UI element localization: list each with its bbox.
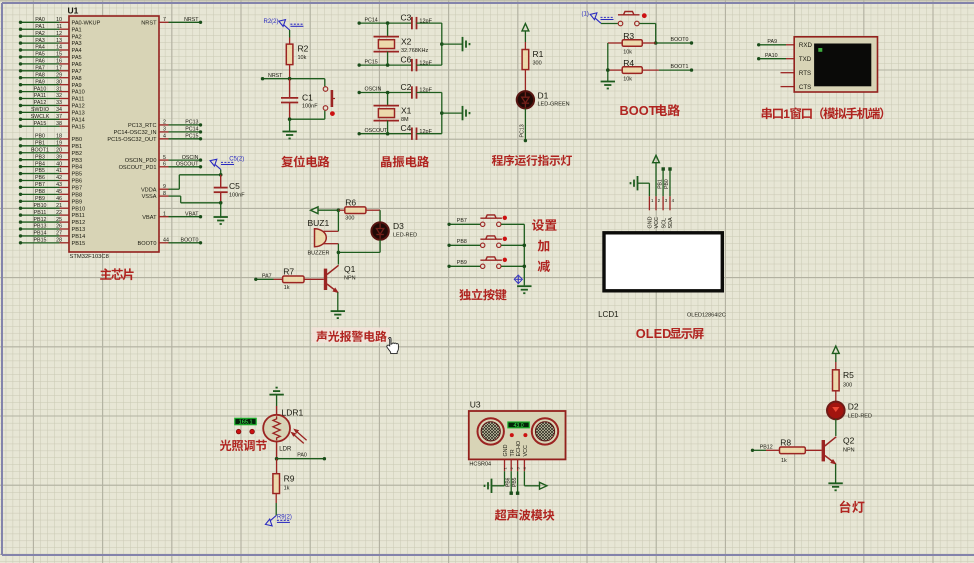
ultrasonic module U3 HCSR04 bbox=[469, 400, 566, 472]
svg-text:12: 12 bbox=[56, 31, 62, 37]
U1 pin OSCIN_PD0 (5) / net OSCIN wire bbox=[125, 155, 202, 164]
svg-text:PB5: PB5 bbox=[72, 172, 83, 178]
svg-text:PB14: PB14 bbox=[72, 234, 86, 240]
ground (rotated left) for U3 GND bbox=[485, 471, 505, 493]
svg-text:SWCLK: SWCLK bbox=[31, 114, 50, 120]
svg-text:VBAT: VBAT bbox=[185, 211, 199, 217]
svg-text:34: 34 bbox=[56, 107, 62, 113]
svg-text:C1: C1 bbox=[302, 93, 313, 103]
U1 pin PA7 (17) / net PA7 wire bbox=[19, 66, 82, 75]
svg-text:6: 6 bbox=[163, 162, 166, 168]
svg-text:PB1: PB1 bbox=[72, 144, 83, 150]
svg-text:32: 32 bbox=[56, 93, 62, 99]
wire D3 to collector node bbox=[337, 240, 381, 255]
svg-text:NPN: NPN bbox=[344, 276, 356, 282]
svg-text:CTS: CTS bbox=[799, 84, 811, 91]
push button PB9 key bbox=[480, 257, 524, 269]
U1 pin BOOT0 (44) / net BOOT0 wire bbox=[138, 238, 203, 247]
resistor R1 300 bbox=[522, 42, 544, 91]
svg-text:PB11: PB11 bbox=[72, 213, 85, 219]
svg-text:PC15-OSC32_OUT: PC15-OSC32_OUT bbox=[107, 137, 157, 143]
net PA9 wire bbox=[757, 39, 786, 47]
svg-text:2: 2 bbox=[163, 120, 166, 126]
U1 pin PA3 (13) / net PA3 wire bbox=[19, 38, 82, 47]
svg-text:10k: 10k bbox=[623, 77, 632, 83]
virtual terminal (serial window) bbox=[781, 37, 878, 92]
svg-text:U3: U3 bbox=[470, 400, 481, 410]
svg-text:100nF: 100nF bbox=[302, 104, 318, 110]
svg-text:X1: X1 bbox=[401, 106, 412, 116]
svg-text:LED-RED: LED-RED bbox=[393, 232, 417, 238]
blue marker diamond bbox=[514, 275, 522, 284]
svg-text:PB3: PB3 bbox=[72, 158, 83, 164]
LDR adjust buttons (red) bbox=[236, 429, 254, 434]
svg-text:42: 42 bbox=[56, 175, 62, 181]
label 晶振电路 (crystal circuit) bbox=[381, 156, 429, 168]
svg-text:Q2: Q2 bbox=[843, 436, 855, 446]
svg-text:PA1: PA1 bbox=[72, 27, 82, 33]
U1 pin PB7 (43) / net PB7 wire bbox=[19, 182, 82, 191]
svg-text:R4: R4 bbox=[623, 58, 634, 68]
net NRST wire + junction bbox=[261, 73, 325, 80]
svg-text:NRST: NRST bbox=[268, 73, 283, 79]
power symbol above R1 bbox=[522, 24, 529, 43]
svg-text:PA3: PA3 bbox=[72, 41, 82, 47]
svg-text:Q1: Q1 bbox=[344, 264, 356, 274]
svg-text:LCD1: LCD1 bbox=[598, 310, 619, 319]
node C5 bottom junction bbox=[219, 201, 223, 205]
svg-text:8: 8 bbox=[163, 191, 166, 197]
svg-text:PB10: PB10 bbox=[34, 203, 47, 209]
U1 pin VBAT (1) / net VBAT wire bbox=[142, 211, 202, 220]
svg-text:PA12: PA12 bbox=[72, 104, 85, 110]
svg-text:PA0-WKUP: PA0-WKUP bbox=[72, 20, 101, 26]
U1 pin PB10 (21) / net PB10 wire bbox=[19, 203, 85, 212]
svg-text:PB12: PB12 bbox=[34, 217, 47, 223]
label 设置 (set) bbox=[532, 219, 557, 231]
svg-text:18: 18 bbox=[56, 134, 62, 140]
svg-text:20: 20 bbox=[56, 148, 62, 154]
svg-text:VCC: VCC bbox=[654, 217, 660, 228]
svg-text:C5(2): C5(2) bbox=[229, 157, 244, 163]
ground reset circuit bbox=[282, 119, 296, 138]
svg-text:PB5: PB5 bbox=[35, 168, 45, 174]
svg-text:PA5: PA5 bbox=[72, 55, 82, 61]
resistor R4 10k bbox=[608, 58, 659, 83]
wire Q2 emitter to ground bbox=[835, 464, 837, 484]
svg-text:BOOT0: BOOT0 bbox=[181, 238, 199, 244]
U1 pin PA10 (31) / net PA10 wire bbox=[19, 86, 85, 95]
svg-text:3: 3 bbox=[163, 127, 166, 133]
transistor Q2 NPN bbox=[822, 419, 855, 464]
svg-text:RXD: RXD bbox=[799, 42, 813, 49]
resistor R3 10k bbox=[608, 31, 656, 56]
svg-text:OSCIN: OSCIN bbox=[365, 87, 382, 93]
ground (rotated left) for OLED GND pin bbox=[631, 176, 650, 196]
net PA0 wire + junction bbox=[275, 453, 326, 461]
svg-text:PB4: PB4 bbox=[35, 161, 45, 167]
label 独立按键 (independent keys) bbox=[459, 289, 506, 301]
buzzer BUZ1 bbox=[308, 218, 339, 257]
svg-text:PA7: PA7 bbox=[72, 69, 82, 75]
LDR LDR1 bbox=[263, 406, 306, 459]
svg-text:1k: 1k bbox=[284, 285, 290, 291]
svg-text:14: 14 bbox=[56, 45, 62, 51]
resistor R9 1k bbox=[273, 459, 295, 503]
resistor R2 10k bbox=[286, 38, 308, 79]
U1 pin PA11 (32) / net PA11 wire bbox=[19, 93, 85, 102]
net PB9 wire bbox=[447, 260, 480, 268]
voltage probe R2(2) bbox=[264, 19, 304, 30]
voltage probe (1) bbox=[582, 12, 614, 24]
svg-text:4: 4 bbox=[163, 134, 166, 140]
net PA10 wire bbox=[757, 53, 786, 61]
svg-text:1k: 1k bbox=[284, 486, 290, 492]
right vertical wire + junction (X1 caps common) bbox=[440, 93, 463, 134]
U1 pin PA6 (16) / net PA6 wire bbox=[19, 59, 82, 68]
svg-text:R2(2): R2(2) bbox=[264, 19, 279, 25]
svg-text:7: 7 bbox=[163, 17, 166, 23]
svg-text:PC15: PC15 bbox=[365, 59, 378, 65]
U1 pin PB4 (40) / net PB4 wire bbox=[19, 161, 82, 170]
net PB1 wire to SCL bbox=[657, 167, 665, 196]
power symbol (left) for alarm bbox=[311, 207, 341, 214]
U1 pin PB0 (18) / net PB0 wire bbox=[19, 134, 82, 143]
svg-text:C3: C3 bbox=[401, 13, 412, 23]
svg-text:R6: R6 bbox=[345, 198, 356, 208]
U1 pin OSCOUT_PD1 (6) / net OSCOUT wire bbox=[119, 162, 203, 171]
svg-text:PB10: PB10 bbox=[72, 206, 86, 212]
svg-text:NRST: NRST bbox=[184, 17, 199, 23]
right vertical wire + junction (X2 caps common) bbox=[440, 23, 463, 65]
svg-text:PC13_RTC: PC13_RTC bbox=[128, 123, 157, 129]
svg-text:1: 1 bbox=[163, 211, 166, 217]
U1 pin PA0-WKUP (10) / net PA0 wire bbox=[19, 17, 101, 26]
svg-text:33: 33 bbox=[56, 100, 62, 106]
svg-text:OSCOUT: OSCOUT bbox=[365, 128, 388, 134]
svg-text:NRST: NRST bbox=[141, 20, 157, 26]
net PB0 wire to SDA bbox=[664, 167, 672, 196]
svg-text:PB9: PB9 bbox=[457, 260, 467, 266]
svg-text:PB15: PB15 bbox=[72, 241, 86, 247]
resistor R6 300 bbox=[338, 198, 380, 222]
U1 pin PA13 (34) / net SWDIO wire bbox=[19, 107, 85, 116]
svg-text:43: 43 bbox=[56, 182, 62, 188]
svg-text:PC13: PC13 bbox=[185, 120, 198, 126]
svg-text:SWDIO: SWDIO bbox=[31, 107, 49, 113]
svg-text:21: 21 bbox=[56, 203, 62, 209]
svg-text:PB8: PB8 bbox=[72, 192, 83, 198]
power symbol above R5 bbox=[832, 346, 839, 362]
U1 pin NRST (7) / net NRST wire bbox=[141, 17, 202, 26]
MCU U1 STM32F103C8 bbox=[68, 6, 160, 261]
svg-text:OSCOUT: OSCOUT bbox=[176, 162, 199, 168]
svg-text:VCC: VCC bbox=[523, 445, 529, 456]
svg-text:PB14: PB14 bbox=[34, 231, 47, 237]
svg-text:OLED: OLED bbox=[636, 326, 672, 341]
OLED LCD1 OLED12864I2C bbox=[598, 196, 726, 319]
crystal X1 8M bbox=[374, 93, 412, 134]
label 主芯片 (main chip) bbox=[100, 268, 133, 280]
net PC14 wire row bbox=[358, 17, 412, 25]
svg-text:PA9: PA9 bbox=[767, 39, 777, 45]
svg-text:PB7: PB7 bbox=[35, 182, 45, 188]
svg-text:27: 27 bbox=[56, 231, 62, 237]
svg-text:C6: C6 bbox=[401, 55, 412, 65]
svg-text:16: 16 bbox=[56, 59, 62, 65]
resistor R5 300 bbox=[833, 362, 855, 402]
svg-text:44: 44 bbox=[163, 238, 169, 244]
svg-text:GND: GND bbox=[648, 216, 654, 228]
svg-text:PA5: PA5 bbox=[35, 52, 45, 58]
svg-text:PB3: PB3 bbox=[35, 154, 45, 160]
U1 pin PB8 (45) / net PB8 wire bbox=[19, 189, 82, 198]
transistor Q1 NPN bbox=[324, 252, 356, 292]
keys common vertical wire + junctions bbox=[523, 224, 527, 285]
svg-text:300: 300 bbox=[843, 383, 852, 389]
LDR adjuster display 165.1 bbox=[235, 418, 256, 425]
svg-text:17: 17 bbox=[56, 66, 62, 72]
svg-text:46: 46 bbox=[56, 196, 62, 202]
label 串口1窗口（模拟手机端） bbox=[762, 107, 884, 121]
svg-text:R5: R5 bbox=[843, 370, 854, 380]
U1 pin PB12 (25) / net PB12 wire bbox=[19, 217, 85, 226]
svg-text:C2: C2 bbox=[401, 82, 412, 92]
U1 pin PB15 (28) / net PB15 wire bbox=[19, 238, 85, 247]
net PB8 wire bbox=[447, 239, 480, 247]
svg-text:13: 13 bbox=[56, 38, 62, 44]
svg-text:X2: X2 bbox=[401, 37, 412, 47]
svg-text:PB0: PB0 bbox=[72, 137, 83, 143]
svg-text:PB12: PB12 bbox=[760, 444, 773, 450]
svg-text:31: 31 bbox=[56, 86, 62, 92]
net OSCIN wire row bbox=[358, 87, 412, 95]
svg-text:PC14: PC14 bbox=[185, 127, 198, 133]
label 减 (minus) bbox=[538, 260, 550, 272]
label 台灯 (desk lamp) bbox=[840, 501, 865, 513]
svg-text:41: 41 bbox=[56, 168, 62, 174]
net PA7 wire bbox=[254, 273, 273, 281]
svg-text:C5: C5 bbox=[229, 181, 240, 191]
U1 pin PB13 (26) / net PB13 wire bbox=[19, 224, 85, 233]
capacitor C1 100nF bbox=[281, 79, 318, 120]
label 声光报警电路 (sound-light alarm) bbox=[312, 327, 390, 342]
svg-text:19: 19 bbox=[56, 141, 62, 147]
svg-text:PA6: PA6 bbox=[35, 59, 45, 65]
svg-text:PA10: PA10 bbox=[34, 86, 47, 92]
capacitor C2 12pF bbox=[401, 82, 442, 99]
svg-text:PA12: PA12 bbox=[34, 100, 47, 106]
svg-text:BOOT1: BOOT1 bbox=[31, 148, 49, 154]
svg-text:R8: R8 bbox=[780, 437, 791, 447]
svg-text:43.0: 43.0 bbox=[514, 423, 524, 429]
svg-text:LED-GREEN: LED-GREEN bbox=[538, 101, 570, 107]
svg-text:OLED12864I2C: OLED12864I2C bbox=[687, 313, 726, 319]
U1 pin PA1 (11) / net PA1 wire bbox=[19, 24, 82, 33]
svg-text:U1: U1 bbox=[68, 6, 79, 16]
ground (rotated right) for X2 bbox=[463, 37, 470, 51]
svg-text:PA1: PA1 bbox=[35, 24, 45, 30]
capacitor C5 100nF bbox=[214, 175, 246, 203]
svg-text:R7: R7 bbox=[283, 266, 294, 276]
label 光照调节 (light adjust) bbox=[220, 440, 267, 452]
svg-text:BUZZER: BUZZER bbox=[308, 251, 330, 257]
ground below C5 bbox=[214, 203, 228, 224]
ground BOOT circuit bbox=[601, 82, 615, 89]
svg-text:26: 26 bbox=[56, 224, 62, 230]
svg-text:R3: R3 bbox=[623, 31, 634, 41]
wire button to BOOT0 node bbox=[654, 24, 658, 45]
svg-text:PA11: PA11 bbox=[72, 97, 85, 103]
svg-text:300: 300 bbox=[345, 216, 354, 222]
svg-text:D1: D1 bbox=[538, 91, 549, 101]
svg-text:PB11: PB11 bbox=[34, 210, 47, 216]
wire power node to buzzer top bbox=[337, 210, 339, 231]
svg-text:R9(2): R9(2) bbox=[277, 514, 292, 520]
reset button (vertical push button) bbox=[323, 79, 335, 120]
svg-text:ECHO: ECHO bbox=[516, 441, 522, 457]
mouse hand cursor bbox=[387, 337, 399, 353]
U1 pin PB3 (39) / net PB3 wire bbox=[19, 154, 82, 163]
svg-text:PA2: PA2 bbox=[72, 34, 82, 40]
label OLED显示屏 bbox=[636, 326, 704, 341]
net PB12 wire bbox=[751, 444, 773, 452]
svg-text:PB1: PB1 bbox=[657, 179, 663, 189]
U1 pin PC14-OSC32_IN (3) / net PC14 wire bbox=[114, 127, 203, 136]
push button PB8 key bbox=[480, 236, 524, 248]
svg-text:SCL: SCL bbox=[661, 218, 667, 229]
svg-text:TR: TR bbox=[510, 449, 516, 456]
resistor R8 1k bbox=[766, 437, 822, 464]
svg-text:29: 29 bbox=[56, 72, 62, 78]
svg-text:PA9: PA9 bbox=[35, 79, 45, 85]
net PB7 wire bbox=[447, 218, 480, 226]
svg-text:PA0: PA0 bbox=[297, 453, 307, 459]
U1 pin PB11 (22) / net PB11 wire bbox=[19, 210, 85, 219]
svg-text:LDR1: LDR1 bbox=[282, 408, 304, 418]
U1 pin PA2 (12) / net PA2 wire bbox=[19, 31, 82, 40]
LED D2 LED-RED (lit) bbox=[827, 402, 872, 420]
power symbol for OLED VCC pin bbox=[653, 155, 660, 196]
svg-text:HCSR04: HCSR04 bbox=[469, 462, 491, 468]
svg-text:PA6: PA6 bbox=[72, 62, 82, 68]
label BOOT电路 bbox=[620, 103, 680, 118]
U1 pin PA9 (30) / net PA9 wire bbox=[19, 79, 82, 88]
U1 pin PB1 (19) / net PB1 wire bbox=[19, 141, 82, 150]
svg-text:PB6: PB6 bbox=[72, 179, 83, 185]
svg-text:PB4: PB4 bbox=[72, 165, 83, 171]
svg-text:37: 37 bbox=[56, 114, 62, 120]
svg-text:100nF: 100nF bbox=[229, 193, 245, 199]
resistor R7 1k bbox=[274, 266, 324, 291]
svg-text:8M: 8M bbox=[401, 117, 409, 123]
svg-text:PB9: PB9 bbox=[72, 199, 83, 205]
ground Q1 emitter bbox=[331, 311, 345, 318]
wire C1 bottom to button bottom bbox=[288, 117, 325, 121]
svg-text:PC13: PC13 bbox=[519, 124, 525, 137]
svg-text:PA7: PA7 bbox=[35, 66, 45, 72]
svg-text:PB9: PB9 bbox=[35, 196, 45, 202]
wire R6 to D3 bbox=[379, 210, 381, 223]
net OSCOUT wire row bbox=[358, 128, 412, 136]
voltage probe R9(2) bbox=[265, 503, 292, 526]
svg-text:45: 45 bbox=[56, 189, 62, 195]
svg-text:PA4: PA4 bbox=[35, 45, 45, 51]
capacitor C3 12pF bbox=[401, 13, 442, 30]
svg-text:(1): (1) bbox=[582, 12, 589, 18]
svg-text:VDDA: VDDA bbox=[141, 187, 157, 193]
net PB5 wire to ECHO bbox=[512, 471, 519, 495]
svg-text:PA15: PA15 bbox=[72, 124, 85, 130]
svg-text:D3: D3 bbox=[393, 221, 404, 231]
svg-text:9: 9 bbox=[163, 184, 166, 190]
svg-text:PB0: PB0 bbox=[664, 179, 670, 189]
svg-text:OSCIN_PD0: OSCIN_PD0 bbox=[125, 158, 157, 164]
U1 pin PB6 (42) / net PB6 wire bbox=[19, 175, 82, 184]
svg-text:PB2: PB2 bbox=[72, 151, 83, 157]
U1 pin PB14 (27) / net PB14 wire bbox=[19, 231, 85, 240]
svg-text:PB8: PB8 bbox=[457, 239, 467, 245]
net PC15 wire row bbox=[358, 59, 412, 67]
svg-text:10k: 10k bbox=[623, 50, 632, 56]
U1 pin PA4 (14) / net PA4 wire bbox=[19, 45, 82, 54]
svg-text:39: 39 bbox=[56, 154, 62, 160]
svg-text:PA14: PA14 bbox=[72, 117, 85, 123]
svg-text:PB13: PB13 bbox=[34, 224, 47, 230]
svg-text:PB15: PB15 bbox=[34, 238, 47, 244]
svg-text:40: 40 bbox=[56, 161, 62, 167]
svg-text:BOOT: BOOT bbox=[620, 103, 657, 118]
net BOOT1 wire bbox=[659, 64, 693, 72]
svg-text:PB12: PB12 bbox=[72, 220, 86, 226]
U1 pin PA8 (29) / net PA8 wire bbox=[19, 72, 82, 81]
svg-text:PB1: PB1 bbox=[35, 141, 45, 147]
svg-text:300: 300 bbox=[533, 61, 542, 67]
svg-text:30: 30 bbox=[56, 79, 62, 85]
svg-text:BOOT0: BOOT0 bbox=[671, 37, 689, 43]
svg-text:165.1: 165.1 bbox=[239, 420, 253, 426]
svg-text:R2: R2 bbox=[298, 44, 309, 54]
svg-text:PB8: PB8 bbox=[35, 189, 45, 195]
svg-text:PB0: PB0 bbox=[35, 134, 45, 140]
svg-text:PA10: PA10 bbox=[765, 53, 778, 59]
svg-text:PB6: PB6 bbox=[35, 175, 45, 181]
svg-text:PA3: PA3 bbox=[35, 38, 45, 44]
svg-text:BOOT1: BOOT1 bbox=[671, 64, 689, 70]
U1 pin VSSA (8) wire to C5 bottom node bbox=[142, 191, 221, 203]
left vertical wire R3/R4 common + junction bbox=[606, 43, 610, 82]
BOOT button (horizontal push button) bbox=[601, 12, 656, 26]
ground Q2 bbox=[828, 483, 842, 490]
svg-text:PA0: PA0 bbox=[35, 17, 45, 23]
svg-text:22: 22 bbox=[56, 210, 62, 216]
svg-text:1: 1 bbox=[783, 107, 790, 121]
label 复位电路 (reset circuit) bbox=[281, 156, 329, 168]
svg-text:R9: R9 bbox=[284, 474, 295, 484]
ground (rotated right) for X1 bbox=[463, 106, 470, 120]
svg-text:BOOT0: BOOT0 bbox=[138, 241, 157, 247]
wire buzzer bottom to node bbox=[337, 244, 339, 253]
svg-text:VSSA: VSSA bbox=[142, 194, 157, 200]
crystal X2 32.768KHz bbox=[374, 23, 429, 65]
svg-text:OSCIN: OSCIN bbox=[182, 155, 199, 161]
U1 pin PA15 (38) / net PA15 wire bbox=[19, 121, 85, 130]
svg-text:SDA: SDA bbox=[668, 217, 674, 228]
svg-text:VBAT: VBAT bbox=[142, 215, 157, 221]
power symbol (right) for U3 VCC bbox=[524, 471, 547, 489]
svg-text:PA8: PA8 bbox=[35, 72, 45, 78]
U1 pin PB9 (46) / net PB9 wire bbox=[19, 196, 82, 205]
